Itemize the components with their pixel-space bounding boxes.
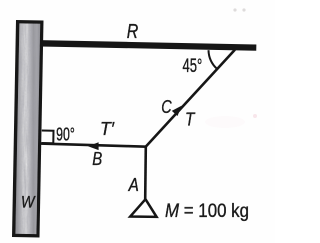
svg-text:45°: 45° (183, 55, 203, 77)
svg-text:W: W (21, 193, 36, 212)
svg-text:90°: 90° (56, 125, 75, 145)
svg-text:A: A (128, 175, 139, 195)
svg-text:R: R (127, 21, 139, 43)
svg-text:B: B (92, 149, 102, 169)
svg-text:M = 100 kg: M = 100 kg (165, 201, 249, 222)
svg-text:C: C (161, 96, 172, 117)
svg-text:T′: T′ (100, 118, 114, 139)
